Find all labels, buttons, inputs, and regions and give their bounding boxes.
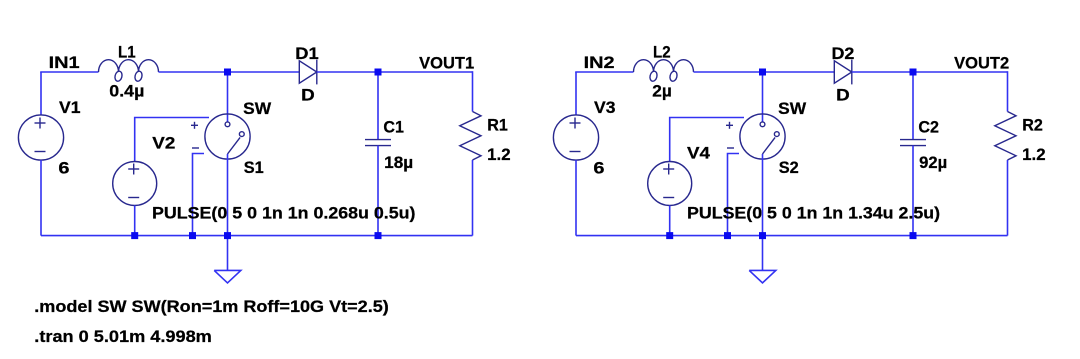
wire bottom rail to ground [227,236,229,271]
junction: switch/ground at bottom rail [759,232,766,239]
wire left rail down to source V3 [575,72,577,115]
wire node IN1-side: inductor L1 to diode D1 anode [159,71,300,73]
svg-text:IN1: IN1 [49,54,80,72]
svg-text:D: D [301,87,315,105]
junction: capacitor C1 at bottom rail [375,232,382,239]
svg-text:L1: L1 [118,44,136,62]
svg-text:PULSE(0 5 0 1n 1n 1.34u 2.5u): PULSE(0 5 0 1n 1n 1.34u 2.5u) [687,205,940,223]
wire source V1 to bottom rail [40,160,42,236]
wire top node to capacitor C2 [912,72,914,140]
junction: capacitor C2 at bottom rail [910,232,917,239]
junction: diode/capacitor/VOUT1 node [375,69,382,76]
wire VOUT1 down to resistor R1 [472,71,474,111]
wire switch - control to bottom rail [193,154,205,236]
svg-text:SW: SW [778,100,806,118]
ground [749,270,776,283]
wire bottom ground rail [41,235,473,237]
junction: pulse source V2 at bottom rail [131,232,138,239]
wire VOUT2 down to resistor R2 [1007,71,1009,111]
voltage source V1 [18,115,63,160]
junction: inductor/switch/diode node [224,69,231,76]
diode D1 [299,60,317,85]
wire left rail down to source V1 [40,72,42,115]
pulse voltage source V2 [113,162,157,206]
wire capacitor C1 to bottom rail [377,146,379,236]
svg-text:V3: V3 [594,99,616,117]
capacitor C1 [365,140,391,146]
wire top node to capacitor C1 [377,72,379,140]
svg-text:2µ: 2µ [652,83,672,101]
svg-text:V4: V4 [687,145,711,163]
wire top node to switch S1 [227,72,229,122]
wire resistor R2 to bottom rail [1007,160,1009,236]
svg-text:1.2: 1.2 [1022,146,1045,164]
svg-text:L2: L2 [653,44,671,62]
svg-text:.model SW SW(Ron=1m Roff=10G V: .model SW SW(Ron=1m Roff=10G Vt=2.5) [34,298,389,316]
junction: switch/ground at bottom rail [224,232,231,239]
capacitor C2 [900,140,926,146]
wire pulse source V2 plus to switch + control [135,118,209,162]
switch S2 (SW) [726,114,785,159]
svg-text:V1: V1 [59,99,81,117]
wire IN rail: top-left corner to inductor L2 [576,71,634,74]
wire switch S1 to bottom rail [227,154,229,236]
junction: switch - control at bottom rail [189,232,196,239]
resistor R1 [460,112,481,161]
svg-text:D: D [836,87,850,105]
junction: switch - control at bottom rail [724,232,731,239]
switch S1 (SW) [191,114,250,159]
wire bottom rail to ground [762,236,764,271]
wire capacitor C2 to bottom rail [912,146,914,236]
svg-text:92µ: 92µ [919,154,947,172]
svg-text:V2: V2 [152,135,175,153]
junction: inductor/switch/diode node [759,69,766,76]
svg-text:SW: SW [243,100,271,118]
svg-text:C2: C2 [918,119,939,137]
inductor L1 [99,60,159,82]
wire resistor R1 to bottom rail [472,160,474,236]
svg-text:1.2: 1.2 [487,146,510,164]
diode D2 [834,60,852,85]
wire source V3 to bottom rail [575,160,577,236]
svg-text:VOUT2: VOUT2 [954,55,1009,73]
voltage source V3 [553,115,598,160]
wire switch - control to bottom rail [728,154,740,236]
svg-text:C1: C1 [383,119,404,137]
svg-text:PULSE(0 5 0 1n 1n 0.268u 0.5u): PULSE(0 5 0 1n 1n 0.268u 0.5u) [152,205,416,223]
wire node VOUT1: diode D1 cathode to top-right corner [317,71,473,73]
wire pulse source V4 plus to switch + control [670,118,744,162]
resistor R2 [995,112,1016,161]
junction: diode/capacitor/VOUT2 node [910,69,917,76]
junction: pulse source V4 at bottom rail [666,232,673,239]
wire top node to switch S2 [762,72,764,122]
inductor L2 [634,60,694,82]
wire node IN2-side: inductor L2 to diode D2 anode [694,71,835,73]
svg-text:.tran 0 5.01m 4.998m: .tran 0 5.01m 4.998m [34,328,212,346]
wire switch S2 to bottom rail [762,154,764,236]
svg-text:VOUT1: VOUT1 [419,55,474,73]
svg-text:0.4µ: 0.4µ [109,83,144,101]
wire IN rail: top-left corner to inductor L1 [41,71,99,74]
svg-text:D1: D1 [295,45,318,63]
svg-text:S2: S2 [779,159,799,177]
wire pulse source V4 to bottom rail [669,206,671,236]
svg-text:S1: S1 [244,159,264,177]
svg-text:6: 6 [593,160,604,178]
svg-text:IN2: IN2 [584,54,615,72]
wire pulse source V2 to bottom rail [134,206,136,236]
wire bottom ground rail [576,235,1008,237]
svg-text:18µ: 18µ [384,154,413,172]
svg-text:D2: D2 [832,45,855,63]
svg-text:6: 6 [58,160,69,178]
svg-text:R1: R1 [487,117,508,135]
ground [214,270,241,283]
svg-text:R2: R2 [1022,117,1043,135]
pulse voltage source V4 [648,162,692,206]
wire node VOUT2: diode D2 cathode to top-right corner [852,71,1008,73]
